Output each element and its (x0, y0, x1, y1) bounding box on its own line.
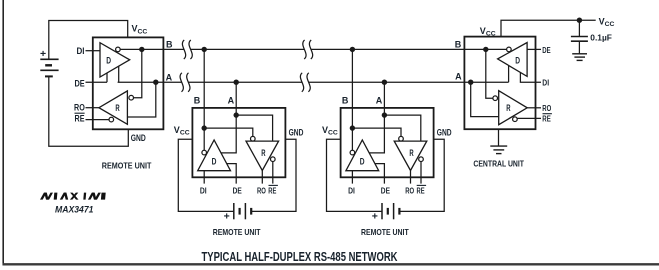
wire bus B middle segment (191, 48, 305, 50)
svg-text:DE: DE (381, 185, 390, 195)
receiver R inverting input bubble (U4) (493, 96, 498, 101)
page bottom border (3, 263, 659, 265)
receiver R inverting input bubble (U2) (251, 136, 256, 141)
wire DE stub up to driver lower slope (106, 73, 108, 82)
svg-text:RO: RO (542, 103, 551, 113)
ground symbol (capacitor C1) (572, 54, 587, 61)
wire A inner junction to driver output slope (U3) (369, 115, 384, 153)
wire B inner junction to receiver bubble (U2) (204, 128, 253, 136)
page left border (2, 0, 4, 266)
break symbol on line B (right) (303, 40, 313, 59)
receiver R (U3) (394, 141, 427, 170)
svg-text:D: D (515, 56, 520, 66)
receiver RE enable bubble (U2) (271, 157, 276, 162)
svg-text:TYPICAL HALF-DUPLEX RS-485 NET: TYPICAL HALF-DUPLEX RS-485 NETWORK (202, 249, 398, 264)
wire GND pin down from box (U4) (498, 129, 500, 146)
svg-text:A: A (455, 71, 462, 81)
svg-text:B: B (166, 40, 173, 50)
svg-text:D: D (106, 55, 111, 65)
node A bus junction dot (U3) (382, 80, 387, 85)
svg-text:RO: RO (257, 185, 266, 195)
svg-text:D: D (360, 156, 365, 166)
wire RE bubble down to RE pin (U2) (272, 162, 274, 184)
svg-text:R: R (409, 148, 414, 158)
wire bus A middle segment (188, 81, 302, 83)
transceiver box U4 (464, 37, 535, 130)
battery short plate right (U2) (250, 208, 252, 215)
wire capacitor C1 to ground (578, 41, 580, 53)
svg-text:A: A (376, 96, 383, 106)
receiver R inverting input bubble (from B) (129, 95, 134, 100)
ground symbol (U4) (490, 146, 507, 154)
wire RO pin from receiver apex (86, 107, 99, 109)
driver D inverting output bubble (U4) (507, 47, 512, 52)
wire A tap down into box (U2) (235, 82, 237, 115)
wire B tap down into box (U2) (203, 49, 205, 128)
receiver RE enable bubble (U4) (513, 117, 518, 122)
svg-text:VCC: VCC (599, 16, 615, 28)
node B bus junction dot (U3) (350, 47, 355, 52)
node B inner junction dot (U2) (202, 125, 207, 130)
wire RE pin from enable bubble (U4) (517, 117, 541, 119)
wire VCC stub and battery feed (U2) (178, 139, 234, 211)
svg-text:VCC: VCC (174, 125, 190, 137)
driver D inverting output bubble (U3) (350, 150, 355, 155)
wire VCC from battery plus to box top (49, 21, 128, 60)
svg-text:RO: RO (405, 185, 414, 195)
wire battery minus to GND pin (49, 76, 129, 146)
break symbol on line A (right) (300, 73, 310, 92)
svg-text:VCC: VCC (132, 24, 148, 36)
svg-text:REMOTE UNIT: REMOTE UNIT (102, 160, 152, 170)
wire DI pin to driver base (86, 50, 101, 52)
wire VCC dot down to capacitor C1 (578, 20, 580, 36)
svg-text:RE: RE (417, 185, 425, 195)
svg-text:R: R (115, 103, 120, 113)
svg-text:GND: GND (131, 133, 146, 143)
svg-text:+: + (40, 48, 46, 60)
overline for RE pin (U4) (543, 113, 552, 115)
svg-text:+: + (224, 211, 230, 223)
wire RO pin from receiver apex (U4) (527, 107, 541, 109)
receiver R (U2) (246, 141, 279, 170)
wire RO pin from receiver apex (U2) (261, 171, 263, 184)
svg-text:DI: DI (77, 46, 85, 56)
svg-text:DE: DE (542, 45, 551, 55)
svg-text:B: B (342, 95, 349, 105)
node A junction dot (U1) (153, 80, 158, 85)
wire DE pin into box (86, 81, 108, 83)
wire bus A left segment (118, 81, 182, 83)
driver D (U3) (346, 140, 379, 171)
driver D (U2) (198, 140, 231, 171)
wire DI pin up to driver base (U2) (203, 171, 205, 184)
wire A junction down to receiver input (U4) (471, 82, 499, 116)
wire VCC pin up and right to supply rail (501, 20, 596, 36)
wire A junction down to receiver input (127, 82, 155, 117)
transceiver box U2 (192, 108, 285, 177)
svg-text:D: D (212, 156, 217, 166)
node B inner junction dot (U3) (350, 125, 355, 130)
wire RE bubble down to RE pin (U3) (420, 162, 422, 184)
svg-text:B: B (455, 39, 462, 49)
battery long plate right (U2) (244, 203, 246, 219)
battery long plate left (U2) (233, 203, 235, 219)
driver D inverting output bubble (U2) (202, 150, 207, 155)
capacitor C1 bottom plate (571, 40, 588, 42)
driver D (U4) (498, 43, 527, 77)
wire driver output stub to A line (118, 66, 120, 82)
receiver R inverting input bubble (U3) (399, 136, 404, 141)
svg-text:REMOTE UNIT: REMOTE UNIT (213, 227, 261, 237)
wire B inner junction to receiver bubble (U3) (352, 128, 401, 136)
wire VCC stub and battery feed (U3) (327, 139, 383, 211)
node VCC junction dot (capacitor tap) (577, 18, 582, 23)
wire DI pin to driver slope (U4) (520, 73, 541, 83)
node B junction dot (U1) (139, 47, 144, 52)
node A junction dot (U4) (468, 80, 473, 85)
svg-text:VCC: VCC (322, 125, 338, 137)
receiver R (U4) (499, 91, 528, 125)
svg-text:DE: DE (75, 78, 85, 88)
node A bus junction dot (U2) (234, 80, 239, 85)
break symbol on line B (left) (182, 40, 192, 59)
battery B1 short plate upper (45, 64, 52, 66)
wire RE pin to enable bubble (86, 119, 110, 121)
node A inner junction dot (U3) (382, 112, 387, 117)
svg-text:R: R (506, 103, 511, 113)
node A inner junction dot (U2) (234, 112, 239, 117)
battery long plate right (U3) (393, 203, 395, 219)
svg-text:A: A (166, 72, 173, 82)
wire driver output stub to A line (U4) (508, 65, 510, 82)
receiver RE enable bubble (U3) (419, 157, 424, 162)
svg-text:0.1µF: 0.1µF (590, 33, 612, 43)
overline for RE pin (U2) (269, 184, 278, 186)
break symbol on line A (left) (180, 73, 190, 92)
driver D inverting output bubble (to B) (116, 47, 121, 52)
wire A inner junction to receiver input (U2) (236, 115, 272, 141)
wire DE pin up to driver slope (U3) (375, 164, 384, 184)
wire A inner junction to driver output slope (U2) (221, 115, 236, 153)
wire RO pin from receiver apex (U3) (410, 171, 412, 184)
wire B tap down into box (U3) (351, 49, 353, 128)
svg-text:REMOTE UNIT: REMOTE UNIT (361, 227, 409, 237)
svg-text:MAX3471: MAX3471 (55, 204, 94, 214)
svg-text:B: B (194, 95, 201, 105)
battery B1 short plate bottom (45, 75, 53, 77)
receiver RE enable bubble (109, 117, 114, 122)
wire battery minus to GND stub (U2) (251, 139, 296, 211)
wire B junction down to receiver bubble (U4) (486, 49, 493, 98)
svg-text:A: A (228, 96, 235, 106)
receiver R (U1) (99, 91, 128, 124)
battery short plate right (U3) (398, 208, 400, 215)
wire B inner junction to driver bubble (U3) (351, 128, 353, 150)
battery short plate left (U2) (239, 208, 241, 215)
Maxim logo (40, 193, 106, 200)
wire B inner junction to driver bubble (U2) (203, 128, 205, 150)
svg-text:DI: DI (348, 185, 355, 195)
svg-text:DI: DI (200, 185, 207, 195)
transceiver box U1 (93, 37, 164, 129)
overline for RE pin (U3) (417, 184, 426, 186)
svg-text:GND: GND (289, 128, 304, 138)
svg-text:RE: RE (268, 185, 276, 195)
svg-text:RE: RE (542, 114, 551, 124)
node B bus junction dot (U2) (202, 47, 207, 52)
svg-text:CENTRAL UNIT: CENTRAL UNIT (473, 159, 524, 169)
svg-text:+: + (372, 211, 378, 223)
battery long plate left (U3) (381, 203, 383, 219)
wire bus A right segment (309, 81, 509, 83)
node B junction dot (U4) (483, 47, 488, 52)
battery B1 long plate lower (40, 69, 58, 71)
wire DI pin up to driver base (U3) (351, 171, 353, 184)
battery B1 long plate top (40, 58, 58, 60)
wire A inner junction to receiver input (U3) (384, 115, 420, 141)
svg-text:RO: RO (74, 103, 85, 113)
transceiver box U3 (341, 108, 434, 177)
wire bus B left segment (120, 48, 184, 50)
wire A tap down into box (U3) (383, 82, 385, 115)
wire battery minus to GND stub (U3) (399, 139, 444, 211)
battery short plate left (U3) (387, 208, 389, 215)
svg-text:R: R (261, 148, 266, 158)
driver D (U1) (100, 43, 130, 77)
capacitor C1 top plate (571, 36, 588, 38)
wire B junction down to receiver bubble (134, 49, 142, 97)
svg-text:GND: GND (437, 128, 452, 138)
overline for RE (U1) (75, 112, 85, 114)
wire DE pin from driver base (U4) (527, 48, 541, 50)
svg-text:DE: DE (233, 185, 242, 195)
svg-text:RE: RE (75, 113, 85, 123)
wire bus B right segment (311, 48, 507, 50)
svg-text:DI: DI (542, 78, 549, 88)
wire DE pin up to driver slope (U2) (227, 164, 236, 184)
